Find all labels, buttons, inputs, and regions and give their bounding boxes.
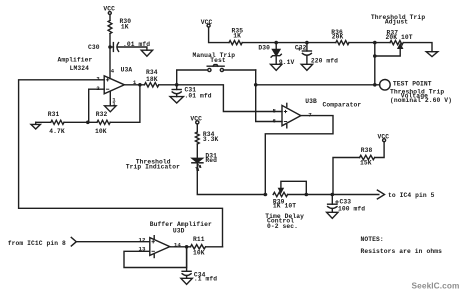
svg-text:4.7K: 4.7K — [49, 128, 65, 135]
wire VCC4 to R34b — [196, 124, 198, 132]
svg-text:20K 10T: 20K 10T — [386, 34, 413, 41]
potentiometer R39 1K 10T — [265, 181, 306, 230]
resistor R31 4.7K — [48, 111, 65, 135]
resistor R30 1K — [108, 18, 131, 34]
op-amp U3A — [58, 57, 137, 108]
wire D31 to bus — [197, 164, 266, 195]
wire input to U3D pin12 — [76, 241, 150, 243]
svg-text:4: 4 — [111, 67, 115, 74]
svg-text:20K: 20K — [332, 34, 344, 41]
resistor R34 18K — [144, 69, 158, 87]
svg-text:.1 mfd: .1 mfd — [194, 276, 217, 283]
signal in chevron from IC1C pin 8 — [8, 237, 77, 247]
svg-text:10K: 10K — [193, 250, 205, 257]
node bus/comparator junction — [264, 193, 268, 197]
node C33 junction — [331, 193, 335, 197]
wire R36 to R37 — [349, 42, 390, 44]
node A junction — [175, 83, 179, 87]
wire top rail R35 to R36 — [242, 42, 336, 44]
notes — [361, 236, 443, 255]
wire node A up to switch — [177, 70, 208, 85]
svg-text:3: 3 — [96, 75, 100, 82]
svg-text:D30: D30 — [258, 45, 270, 52]
wire divider node down to test point — [374, 43, 376, 85]
node C32 junction — [305, 41, 309, 45]
ground (C34) — [181, 278, 192, 284]
ground (top right) — [426, 52, 438, 57]
node D30 junction — [274, 41, 278, 45]
ground (R31) — [31, 122, 40, 129]
capacitor C30 .01 mfd — [88, 41, 150, 52]
svg-text:1K: 1K — [121, 24, 129, 31]
svg-text:220 mfd: 220 mfd — [311, 58, 338, 65]
svg-text:R31: R31 — [48, 111, 60, 118]
resistor R35 1K — [229, 28, 243, 45]
svg-text:NOTES:: NOTES: — [361, 236, 384, 243]
potentiometer R37 20K 10T — [371, 14, 425, 56]
wire U3A pin2 to R31/R32 node — [89, 89, 105, 122]
test point terminal — [380, 80, 452, 105]
ground (U3A pin 11) — [105, 106, 117, 112]
svg-text:Resistors are in ohms: Resistors are in ohms — [361, 248, 443, 255]
svg-text:TEST POINT: TEST POINT — [393, 81, 432, 88]
VCC symbol above R30 — [103, 5, 115, 14]
svg-text:0-2 sec.: 0-2 sec. — [267, 223, 298, 230]
svg-text:C30: C30 — [88, 44, 100, 51]
wire threshold node to test point — [256, 84, 380, 86]
node wiper junction — [373, 54, 377, 58]
svg-text:Comparator: Comparator — [323, 101, 362, 108]
capacitor C33 100 mfd — [328, 195, 366, 213]
node R36/R37 junction — [373, 41, 377, 45]
capacitor C34 .1 mfd — [182, 247, 217, 283]
svg-text:C32: C32 — [295, 45, 307, 52]
node U3D output junction — [185, 245, 189, 249]
svg-text:LM324: LM324 — [70, 65, 90, 72]
svg-text:R38: R38 — [361, 147, 373, 154]
svg-text:from IC1C pin 8: from IC1C pin 8 — [8, 240, 66, 247]
svg-text:.01 mfd: .01 mfd — [185, 93, 212, 100]
node R39 wiper-return junction — [305, 193, 309, 197]
svg-text:Buffer Amplifier: Buffer Amplifier — [150, 221, 212, 228]
resistor R34 3.3K — [195, 131, 218, 144]
wire VCC3 down to R38 — [375, 142, 384, 158]
wire R31 to node — [64, 121, 97, 123]
svg-text:Red: Red — [205, 157, 217, 164]
VCC symbol above R34 3.3K — [190, 115, 202, 124]
resistor R38 15K — [360, 147, 375, 166]
wire switch to pin6 branch — [224, 69, 256, 71]
svg-text:1K: 1K — [233, 33, 241, 40]
ground (C31) — [170, 97, 183, 103]
svg-text:SeekIC.com: SeekIC.com — [412, 281, 460, 291]
node R31/R32/pin2 junction — [86, 121, 90, 125]
svg-text:5: 5 — [273, 108, 277, 115]
ground (D30) — [271, 64, 282, 70]
svg-text:U3B: U3B — [305, 98, 317, 105]
wire U3B output loop down to bus — [265, 116, 333, 195]
wire VCC1 to R30 — [109, 15, 111, 21]
zener diode D30 9.1V — [258, 43, 294, 66]
svg-text:15K: 15K — [360, 160, 372, 167]
wire VCC2 to R35 — [209, 27, 229, 42]
svg-text:100 mfd: 100 mfd — [338, 205, 365, 212]
capacitor C32 220 mfd — [295, 43, 338, 65]
wire R38 down to bus — [333, 158, 360, 195]
wire U3A pin11 to ground — [109, 91, 111, 106]
op-amp U3D buffer — [139, 221, 212, 258]
resistor R32 10K — [95, 111, 110, 135]
svg-text:6: 6 — [273, 117, 277, 124]
op-amp U3B comparator — [273, 98, 362, 128]
wire R30 to U3A pin4 — [109, 34, 111, 79]
svg-text:1K 10T: 1K 10T — [273, 203, 296, 210]
svg-text:U3D: U3D — [173, 227, 185, 234]
svg-text:Test: Test — [210, 57, 226, 64]
ground (C33) — [327, 212, 338, 218]
svg-text:Amplifier: Amplifier — [58, 57, 93, 64]
wire ground to R31 — [36, 121, 51, 123]
resistor R36 20K — [331, 29, 349, 45]
svg-text:3.3K: 3.3K — [203, 136, 219, 143]
wire R34b to D31 — [196, 144, 198, 158]
ground (C30) — [141, 50, 152, 56]
node test point junction — [373, 83, 377, 87]
signal out arrow to IC4 pin 5 — [377, 190, 434, 199]
wire R34 to node A, jog down to U3B pin5 — [159, 85, 282, 112]
node U3A output junction — [138, 83, 142, 87]
VCC symbol above R38 — [378, 133, 390, 141]
wire U3A pin3 long feedback from buffer — [19, 80, 223, 247]
svg-text:Trip Indicator: Trip Indicator — [126, 164, 180, 171]
svg-text:U3A: U3A — [121, 67, 133, 74]
wire bus to output arrow — [288, 194, 379, 196]
svg-text:Adjust: Adjust — [385, 19, 408, 26]
wire C30 to ground — [117, 47, 147, 50]
wire R11 to feedback corner — [206, 246, 223, 248]
wire U3D feedback loop pin13 — [124, 247, 187, 268]
ground (C32) — [301, 64, 312, 70]
svg-text:to IC4 pin 5: to IC4 pin 5 — [388, 192, 435, 199]
wire U3D output — [170, 246, 191, 248]
svg-text:R32: R32 — [96, 111, 108, 118]
wire R32 to U3A output (feedback) — [110, 85, 140, 123]
capacitor C31 .01 mfd — [172, 85, 212, 100]
svg-text:R11: R11 — [193, 236, 205, 243]
LED D31 Red — [126, 153, 217, 171]
node threshold junction — [254, 83, 258, 87]
resistor R11 10K — [191, 236, 206, 256]
svg-text:(nominal 2.60 V): (nominal 2.60 V) — [390, 97, 452, 104]
wire switch right down to U3B pin6 — [256, 70, 282, 122]
pushbutton switch (Manual Trip Test) — [193, 52, 236, 72]
node C30 junction — [108, 45, 112, 49]
wire U3A output — [124, 84, 144, 86]
wire R37 to right ground — [404, 43, 432, 52]
VCC symbol above R35 — [201, 19, 213, 27]
svg-text:12: 12 — [139, 236, 146, 243]
svg-text:18K: 18K — [146, 76, 158, 83]
svg-text:10K: 10K — [95, 128, 107, 135]
